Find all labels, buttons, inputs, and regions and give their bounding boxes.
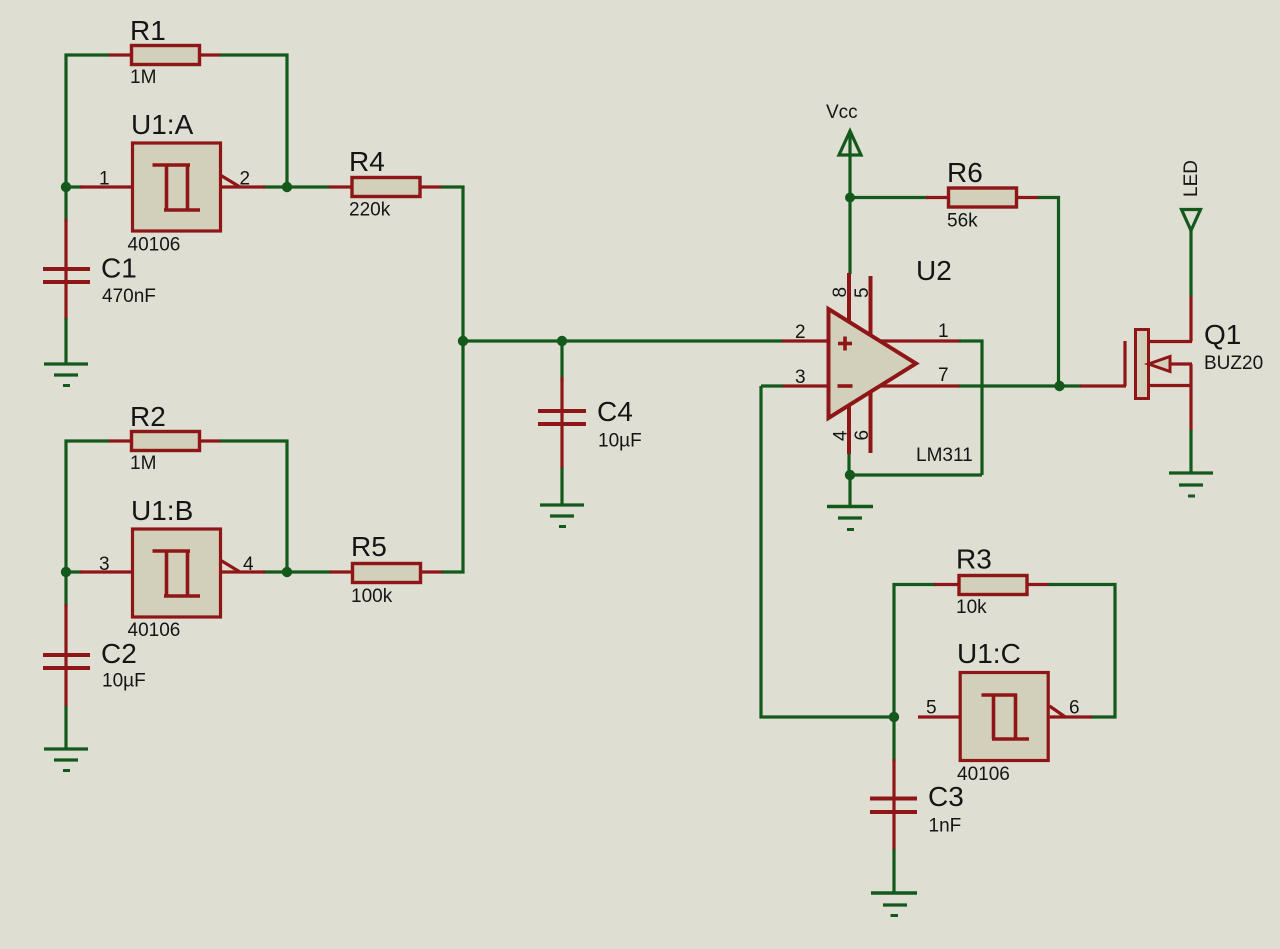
svg-text:3: 3 — [99, 554, 110, 575]
svg-text:R2: R2 — [130, 401, 166, 432]
ground Q1 — [1169, 473, 1213, 496]
svg-text:U2: U2 — [916, 255, 952, 286]
wire R3 right loop — [1048, 585, 1115, 718]
wire C3 top — [892, 717, 895, 762]
wire R2 left loop — [66, 441, 110, 572]
node output — [1054, 381, 1064, 391]
resistor R5 — [330, 531, 443, 607]
wire R6 to output node — [1038, 198, 1059, 387]
wire op-amp pin1 down — [959, 341, 982, 475]
resistor R4 — [329, 146, 442, 221]
wire pin3 U1:B — [64, 570, 82, 573]
wire center to op-amp pin2 — [463, 339, 783, 342]
capacitor C3 — [870, 759, 964, 850]
resistor R3 — [934, 544, 1049, 619]
ground C2 — [44, 749, 88, 771]
node C4 tap — [557, 336, 567, 346]
op-amp U2 — [782, 255, 973, 466]
node pin4 B — [282, 567, 292, 577]
svg-text:1M: 1M — [130, 453, 156, 474]
wire C3 to ground — [892, 849, 895, 893]
capacitor C4 — [538, 377, 642, 469]
ground C3 — [871, 893, 917, 916]
svg-text:BUZ20: BUZ20 — [1204, 353, 1263, 374]
svg-text:Q1: Q1 — [1204, 319, 1241, 350]
svg-text:R5: R5 — [351, 531, 387, 562]
svg-text:R3: R3 — [956, 544, 992, 575]
wire Q1 drain to LED — [1189, 230, 1192, 296]
svg-text:7: 7 — [938, 365, 949, 386]
svg-text:C2: C2 — [101, 638, 137, 669]
svg-text:4: 4 — [831, 430, 852, 441]
svg-text:1nF: 1nF — [929, 815, 962, 836]
LED terminal — [1181, 160, 1202, 230]
resistor R2 — [109, 401, 220, 474]
node Vcc — [845, 193, 855, 203]
svg-text:2: 2 — [795, 322, 806, 343]
svg-text:Vcc: Vcc — [826, 102, 858, 123]
wire C4 top — [560, 341, 563, 382]
svg-text:1M: 1M — [130, 67, 156, 88]
capacitor C2 — [43, 604, 146, 707]
resistor R6 — [926, 157, 1039, 232]
svg-text:6: 6 — [1069, 698, 1080, 719]
wire op-amp pin4 to ground junction — [847, 454, 850, 476]
wire Q1 source to ground — [1189, 430, 1192, 473]
inverter U1:C — [918, 638, 1092, 785]
svg-text:10k: 10k — [956, 597, 987, 618]
svg-text:LM311: LM311 — [916, 445, 973, 466]
node pin2 A — [282, 182, 292, 192]
svg-text:LED: LED — [1181, 160, 1202, 197]
ground C4 — [540, 505, 584, 527]
svg-text:2: 2 — [240, 169, 251, 190]
svg-text:1: 1 — [938, 321, 949, 342]
wire pin3 net down-left — [761, 386, 895, 717]
svg-text:C3: C3 — [928, 781, 964, 812]
wire Vcc down — [848, 133, 851, 274]
wire C1 to ground — [64, 318, 67, 364]
node U1:C input — [889, 712, 899, 722]
wire R1 left loop — [66, 55, 110, 186]
svg-text:8: 8 — [830, 287, 851, 298]
wire pin4 U1:B to R5 — [263, 570, 331, 573]
svg-text:R6: R6 — [947, 157, 983, 188]
wire pin3 stub — [761, 384, 783, 387]
wire U2 ground stem — [848, 475, 851, 507]
wire C2 top — [64, 572, 67, 607]
node pin1 A — [61, 182, 71, 192]
transistor Q1 — [1080, 295, 1263, 431]
svg-text:10µF: 10µF — [598, 430, 642, 451]
svg-text:56k: 56k — [947, 211, 978, 232]
wire pin2 U1:A to R4 node — [263, 185, 330, 188]
wire R4 to center node — [441, 187, 463, 341]
wire R1 right loop — [219, 55, 287, 187]
node center — [458, 336, 468, 346]
svg-text:5: 5 — [926, 698, 937, 719]
wire R2 right loop — [219, 441, 287, 572]
wire C1 top — [64, 187, 67, 222]
Vcc power symbol — [839, 131, 861, 155]
node U2 ground — [845, 470, 855, 480]
svg-text:U1:A: U1:A — [131, 109, 194, 140]
wire R5 to center node — [442, 341, 463, 572]
inverter U1:B — [80, 495, 265, 641]
node pin3 B — [61, 567, 71, 577]
wire pin1 U1:A — [64, 185, 82, 188]
svg-text:10µF: 10µF — [102, 671, 146, 692]
svg-text:4: 4 — [243, 554, 254, 575]
svg-text:470nF: 470nF — [102, 286, 156, 307]
svg-text:U1:B: U1:B — [131, 495, 193, 526]
wire op-amp pin7 to gate — [959, 384, 1081, 387]
ground C1 — [44, 364, 88, 386]
svg-text:U1:C: U1:C — [957, 638, 1021, 669]
wire C2 to ground — [64, 706, 67, 749]
svg-text:220k: 220k — [349, 200, 391, 221]
wire C4 to ground — [560, 468, 563, 505]
svg-text:40106: 40106 — [957, 764, 1010, 785]
svg-text:C1: C1 — [101, 253, 137, 284]
inverter U1:A — [80, 109, 265, 256]
svg-text:1: 1 — [99, 169, 110, 190]
wire ground bus U2 — [849, 473, 982, 476]
svg-text:R4: R4 — [349, 146, 385, 177]
svg-text:3: 3 — [795, 367, 806, 388]
resistor R1 — [109, 15, 220, 88]
svg-text:6: 6 — [852, 430, 873, 441]
svg-text:C4: C4 — [597, 396, 633, 427]
svg-text:R1: R1 — [130, 15, 166, 46]
capacitor C1 — [43, 219, 156, 320]
wire R3 left loop — [894, 585, 936, 717]
wire Vcc to R6 — [850, 196, 928, 199]
svg-text:100k: 100k — [351, 586, 393, 607]
ground U2 — [827, 507, 873, 530]
svg-text:5: 5 — [852, 287, 873, 298]
